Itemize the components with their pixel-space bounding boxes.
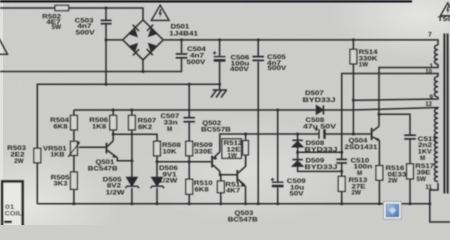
node junction R506 / Q501 collector (112, 133, 115, 136)
connector box degaussing coil (2, 181, 22, 228)
wire C506 bottom lead to ground rail (219, 62, 221, 85)
node junction C506 top on B+ rail (218, 38, 221, 41)
wire R511 leads (220, 175, 222, 181)
wire C510 bottom lead (341, 163, 343, 176)
node junction Q502 collector / R511 / Q503 base (219, 173, 222, 176)
node junction Q503 emitter bottom (244, 202, 247, 205)
node junction C505 top on B+ rail (257, 38, 260, 41)
bridge diode upper-left (129, 25, 139, 37)
bridge diode lower-left (129, 44, 139, 56)
resistor R503 (34, 148, 41, 163)
wire Q502 collector to node (219, 171, 221, 174)
node junction R516 bottom (378, 202, 381, 205)
transformer T501 winding pins 12-11 (434, 109, 438, 182)
wire D508 leads (297, 134, 299, 140)
warning triangle at left edge (0, 38, 8, 55)
wire clamp mid wire y152 to C510 column (298, 151, 342, 153)
wire R508 bottom lead through D506 (156, 156, 158, 177)
node junction C503 bottom on ground rail (105, 83, 108, 86)
capacitor C509 polarized (271, 178, 284, 186)
node junction R505 bottom (72, 202, 75, 205)
zener diode D505 (125, 177, 139, 188)
capacitor C511 (404, 135, 416, 139)
value label D505 (103, 176, 125, 196)
wire AC line-in rail to R502 and bridge top (0, 8, 143, 21)
node junction D508 top on base line (296, 133, 299, 136)
node junction C503 top (105, 7, 108, 10)
wire R512 leads (245, 134, 247, 141)
node junction R510 bottom (188, 202, 191, 205)
capacitor C510 (336, 159, 347, 163)
wire bridge bottom lead (142, 60, 144, 72)
wire aux supply rail y110 D507 (74, 108, 438, 111)
value label R502 (42, 13, 62, 30)
wire D509 leads (297, 152, 299, 159)
capacitor C506 polarized (213, 51, 226, 60)
node junction R514 top on B+ rail (352, 38, 355, 41)
wire chassis ground lead (219, 84, 221, 90)
node junction R509 / base wire (188, 160, 191, 163)
diode D507 (316, 105, 323, 114)
wire R504 column (73, 110, 75, 115)
wire Q503 base wire (220, 174, 237, 176)
wire R503 bottom lead to bottom rail (36, 163, 38, 204)
resistor R502 (55, 5, 69, 10)
capacitor C503 (101, 20, 112, 23)
node junction R506 top (112, 109, 115, 112)
node junction C507 column on ground rail (188, 83, 191, 86)
wire Q502 emitter riser and long base line y134 (220, 134, 319, 152)
value label R503 (7, 145, 27, 165)
transistor Q504 (371, 126, 380, 141)
resistor R512 (243, 141, 249, 155)
resistor R513 (338, 176, 345, 191)
transistor Q501 (106, 134, 132, 161)
warning triangle above T501 (440, 3, 450, 16)
wire R514 bottom lead down to base line (352, 64, 354, 134)
bridge rectifier D501 diamond (123, 20, 163, 60)
node junction R514 / base line (352, 133, 355, 136)
resistor R509 (186, 141, 193, 156)
node junction C509 top (276, 109, 279, 112)
resistor R505 (71, 172, 78, 189)
ground chassis symbol (211, 90, 227, 98)
value label R504 (50, 117, 70, 130)
wire C507 R509 R510 column (188, 84, 190, 117)
wire AC2 rail to left edge with C504 return (0, 59, 182, 72)
wire R517 bottom lead (409, 179, 411, 204)
wire transformer pin 1 down to Q504 collector (379, 64, 438, 126)
wire C503 leads (105, 8, 107, 20)
resistor R514 (350, 49, 357, 64)
node junction Q501 emitter / R507 column (130, 159, 133, 162)
wire cold ground rail y84 (37, 84, 219, 148)
node junction R517 bottom (409, 202, 412, 205)
bridge diode upper-right (147, 25, 157, 36)
node junction R514 / pin9 wire (352, 99, 355, 102)
value label VR501 (43, 145, 67, 158)
resistor R517 (407, 164, 414, 179)
wire R506 bottom lead (112, 130, 114, 134)
warning triangle near D501 (151, 5, 169, 20)
capacitor C505 (252, 57, 264, 61)
node junction R511 bottom (219, 202, 222, 205)
wire C511 to R517 lead (409, 139, 411, 164)
diode D509 (292, 160, 303, 167)
top scan border line (0, 0, 412, 2)
zener diode D506 (151, 177, 165, 188)
wire R507 column through D505 (131, 110, 133, 115)
transformer T501 primary winding pins 7-1 (435, 45, 439, 64)
value label C503 (75, 17, 96, 36)
node junction R513 bottom (340, 202, 343, 205)
wire VR501 wiper to Q501 base (79, 146, 106, 148)
node junction R507 top (130, 109, 133, 112)
wire C504 top lead (181, 40, 183, 53)
wire C505 top lead (257, 40, 259, 56)
node junction bridge bottom on AC2 rail (142, 70, 145, 73)
node junction C506 bottom / chassis ground (218, 83, 221, 86)
node junction bridge-left / C503 (105, 38, 108, 41)
resistor R511 (217, 181, 224, 193)
transformer T501 core (443, 34, 445, 194)
wire B+ rail from bridge right vertex to transformer pin 7 (163, 40, 438, 45)
wire transformer pin 9 (353, 97, 438, 100)
node junction C505 bottom (257, 202, 260, 205)
resistor R516 (376, 166, 383, 181)
node junction C509 bottom (276, 202, 279, 205)
capacitor C507 (184, 118, 195, 122)
value label R505 (51, 174, 71, 187)
transistor Q502 (211, 152, 220, 171)
wire C509 column (277, 110, 279, 182)
node junction bottom rail / pin11 column (428, 202, 431, 205)
resistor R507 (129, 115, 136, 129)
wire transformer pin 11 return to bottom right (430, 183, 450, 222)
wire bridge left vertex to C503 column (106, 39, 123, 41)
wire R514 top lead (352, 40, 354, 50)
wire Q501 collector to R508 top (113, 134, 157, 141)
node junction R508 / base wire (156, 160, 159, 163)
capacitor C508 polarized series (315, 128, 325, 139)
potentiometer VR501 (71, 141, 78, 155)
wire C505 bottom column to bottom rail (257, 62, 259, 204)
transformer T501 winding pins 10-9 (434, 77, 438, 97)
node junction D508 D509 midpoint (296, 151, 299, 154)
node junction R512 top on base line (244, 133, 247, 136)
wire bottom cold rail (37, 203, 430, 205)
watermark plugin icon (384, 202, 402, 220)
node junction C504 top on B+ rail (180, 38, 183, 41)
resistor R510 (186, 179, 193, 194)
node junction D506 bottom (156, 202, 159, 205)
wire Q504 emitter to R516 (378, 140, 380, 165)
wire Q503 emitter lead to bottom rail (245, 186, 247, 204)
capacitor C504 (176, 54, 188, 58)
wire snubber jog collector to C511 (379, 114, 410, 135)
safety box around R512 label (222, 139, 242, 159)
resistor R506 (110, 115, 117, 129)
node junction Q504 collector / snubber (378, 113, 381, 116)
node junction on C510 column y152 (340, 151, 343, 154)
wire transformer pin 10 down to C510 (342, 74, 438, 160)
node junction D505 bottom (130, 202, 133, 205)
node junction C510 bottom / R513 top (340, 170, 343, 173)
resistor R504 (71, 115, 78, 129)
bridge diode lower-right (147, 44, 157, 56)
wire Q502 base wire y161.8 (157, 161, 211, 163)
wire C506 top lead (219, 40, 221, 56)
wire R516 bottom lead (378, 180, 380, 204)
transistor Q503 (236, 155, 245, 186)
diode D508 (292, 140, 303, 147)
resistor R508 (154, 141, 161, 156)
wire R513 bottom lead (341, 191, 343, 203)
